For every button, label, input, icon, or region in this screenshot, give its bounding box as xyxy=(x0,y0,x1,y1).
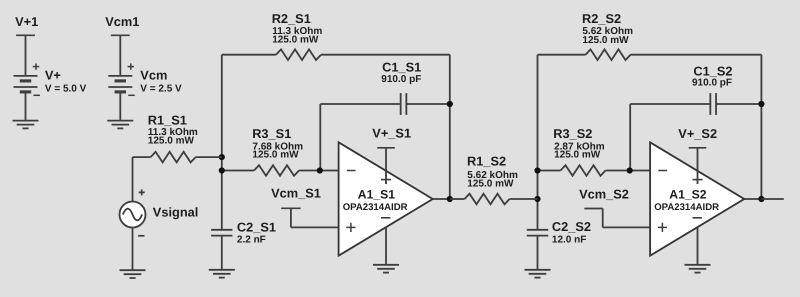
svg-text:910.0 pF: 910.0 pF xyxy=(692,78,732,89)
svg-text:A1_S2: A1_S2 xyxy=(669,187,706,201)
svg-text:C1_S1: C1_S1 xyxy=(382,60,421,75)
svg-text:R3_S2: R3_S2 xyxy=(553,126,592,141)
svg-text:R3_S1: R3_S1 xyxy=(252,126,291,141)
svg-text:OPA2314AIDR: OPA2314AIDR xyxy=(654,202,719,213)
svg-text:2.2 nF: 2.2 nF xyxy=(237,235,266,246)
svg-text:125.0 mW: 125.0 mW xyxy=(554,150,601,161)
svg-text:V = 2.5 V: V = 2.5 V xyxy=(140,84,182,95)
svg-text:125.0 mW: 125.0 mW xyxy=(582,35,629,46)
svg-text:C2_S1: C2_S1 xyxy=(237,220,276,235)
svg-text:C1_S2: C1_S2 xyxy=(693,64,732,79)
svg-text:V = 5.0 V: V = 5.0 V xyxy=(45,84,87,95)
svg-text:125.0 mW: 125.0 mW xyxy=(467,178,514,189)
svg-text:Vcm_S1: Vcm_S1 xyxy=(271,186,321,201)
svg-text:V+_S1: V+_S1 xyxy=(372,125,411,140)
svg-text:Vcm: Vcm xyxy=(140,68,167,83)
svg-text:125.0 mW: 125.0 mW xyxy=(148,136,195,147)
svg-text:C2_S2: C2_S2 xyxy=(552,219,591,234)
svg-text:V+: V+ xyxy=(45,68,61,83)
svg-text:V+1: V+1 xyxy=(15,14,38,29)
svg-text:R2_S1: R2_S1 xyxy=(272,11,311,26)
svg-text:Vcm_S2: Vcm_S2 xyxy=(579,187,629,202)
svg-text:R2_S2: R2_S2 xyxy=(582,11,621,26)
svg-text:12.0 nF: 12.0 nF xyxy=(552,235,586,246)
svg-text:OPA2314AIDR: OPA2314AIDR xyxy=(343,202,408,213)
svg-text:A1_S1: A1_S1 xyxy=(358,187,395,201)
svg-text:Vsignal: Vsignal xyxy=(153,205,199,220)
svg-text:V+_S2: V+_S2 xyxy=(678,126,717,141)
svg-text:125.0 mW: 125.0 mW xyxy=(252,150,299,161)
svg-text:R1_S2: R1_S2 xyxy=(467,154,506,169)
svg-text:R1_S1: R1_S1 xyxy=(148,112,187,127)
svg-text:910.0 pF: 910.0 pF xyxy=(381,74,421,85)
svg-text:Vcm1: Vcm1 xyxy=(105,14,139,29)
svg-text:125.0 mW: 125.0 mW xyxy=(272,35,319,46)
